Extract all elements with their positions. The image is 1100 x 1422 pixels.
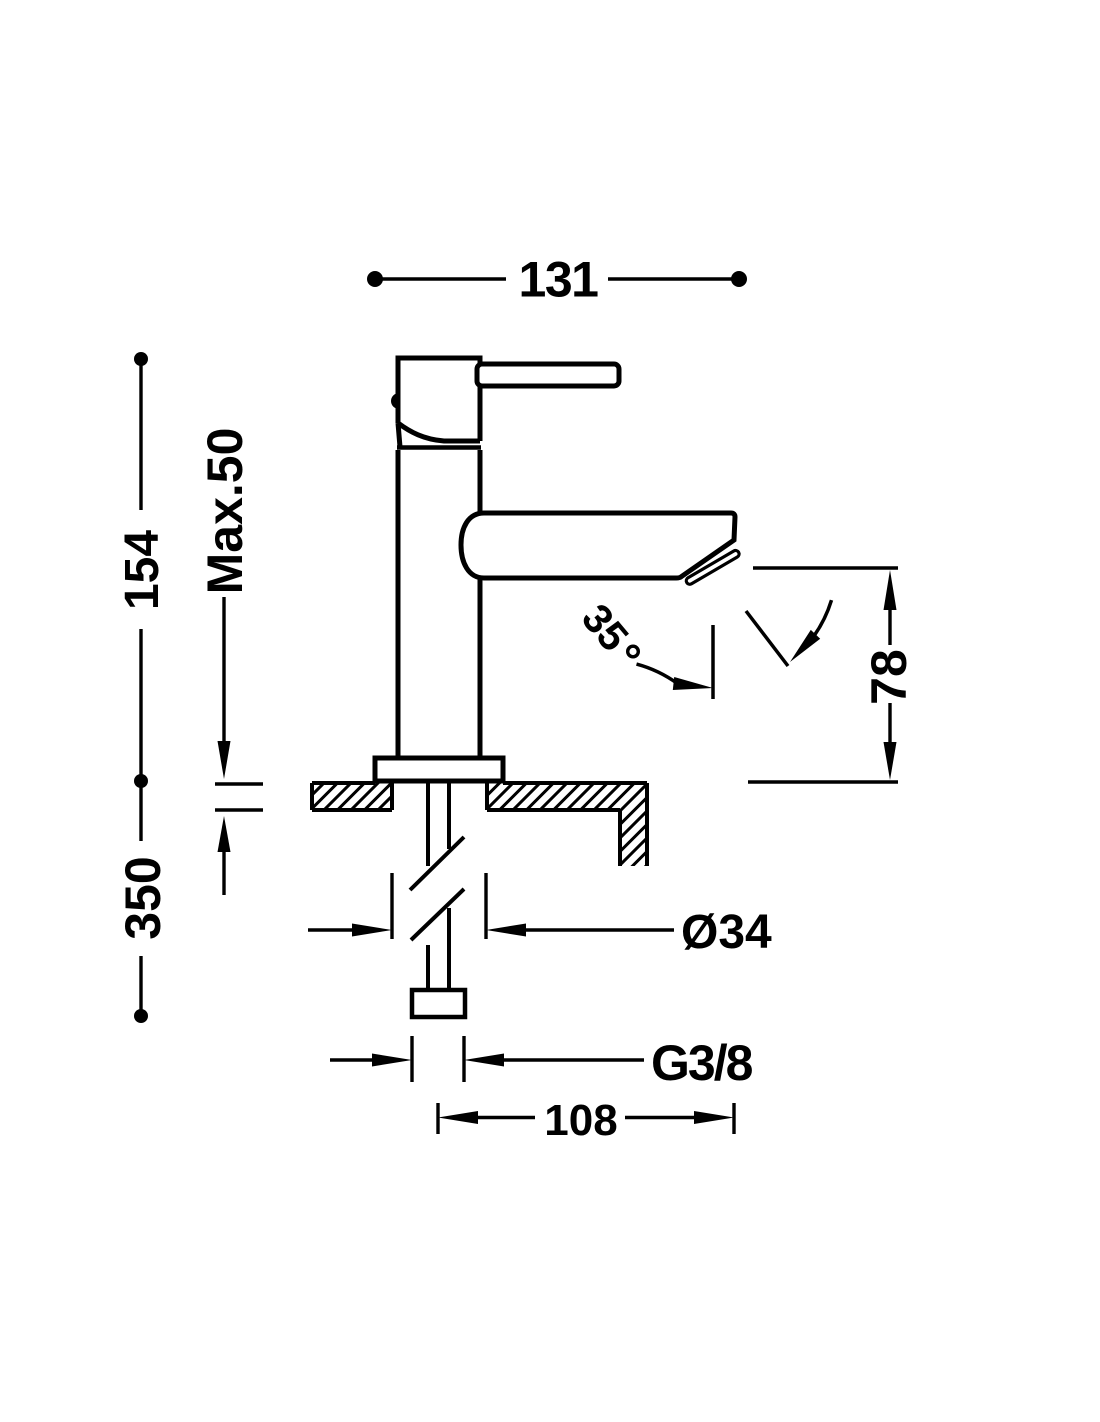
svg-text:Ø34: Ø34 <box>681 906 772 959</box>
svg-text:Max.50: Max.50 <box>197 428 253 595</box>
svg-text:78: 78 <box>861 649 917 705</box>
svg-text:154: 154 <box>116 530 169 610</box>
svg-text:G3/8: G3/8 <box>651 1035 753 1091</box>
svg-text:131: 131 <box>519 252 599 308</box>
svg-text:108: 108 <box>544 1096 617 1145</box>
svg-text:350: 350 <box>115 856 171 939</box>
